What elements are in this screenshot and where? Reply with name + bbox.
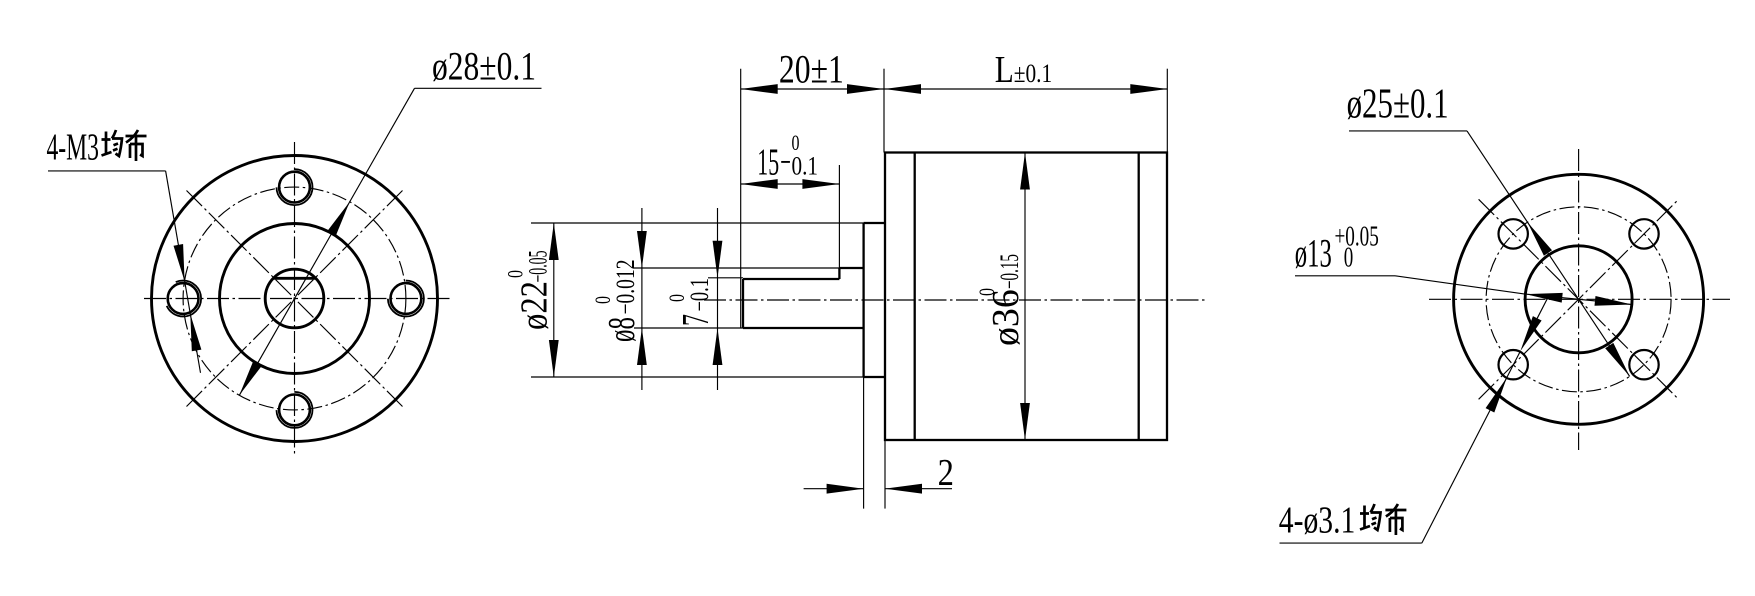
dim 4-phi3.1: arrow upper tail — [1537, 298, 1548, 318]
dim phi8: arrow lower — [637, 328, 647, 365]
dim 4-M3: leader line — [166, 171, 201, 373]
svg-text:7: 7 — [675, 314, 717, 326]
dim 4-phi3.1: dimension line through hole — [1507, 351, 1520, 377]
ext line: boss bottom horizontal — [531, 376, 864, 378]
svg-text:0: 0 — [1344, 243, 1354, 274]
right view: mounting hole bottom-right — [1629, 350, 1658, 379]
svg-text:−0.15: −0.15 — [995, 254, 1024, 289]
dim 7: arrow lower — [713, 328, 723, 365]
dim 4-phi3.1: arrow upper — [1520, 316, 1541, 351]
ext line: boss face lower — [863, 377, 865, 509]
right view: mounting hole top-left — [1499, 219, 1528, 248]
left view: M3 hole top minor circle — [279, 172, 310, 203]
ext line: shaft bottom horizontal — [634, 327, 743, 329]
dim phi8: arrow upper — [637, 231, 647, 268]
svg-text:ø13: ø13 — [1295, 231, 1332, 276]
svg-text:0: 0 — [664, 294, 689, 302]
svg-text:−0.012: −0.012 — [611, 260, 640, 315]
svg-text:0: 0 — [590, 296, 615, 304]
dim phi22: arrow down — [549, 340, 559, 377]
middle view: shaft flat step — [838, 268, 840, 279]
right view: horizontal centerline — [1429, 298, 1730, 300]
dim phi22: dimension line — [553, 223, 555, 377]
right view: bolt circle (dash-dot) — [1486, 207, 1671, 392]
left view: center shaft hole — [265, 269, 324, 328]
right view: diagonal centerline SW-NE — [1479, 199, 1679, 399]
ext line: body face lower — [884, 440, 886, 509]
svg-text:+0.05: +0.05 — [1335, 222, 1379, 253]
middle view: rear end-cap line — [1138, 153, 1140, 441]
left view: flange outer circle — [152, 156, 438, 442]
dim phi25: dimension line — [1467, 131, 1630, 377]
dim L: arrow right — [1130, 84, 1167, 94]
svg-text:4-ø3.1: 4-ø3.1 — [1279, 500, 1356, 542]
dim phi28: leader underline — [415, 87, 542, 89]
dim phi28: dimension line — [239, 88, 414, 395]
svg-text:0.1: 0.1 — [792, 151, 819, 180]
dim 4-M3: label CJK jun — [102, 130, 123, 156]
dim phi28: arrow lower — [239, 361, 262, 396]
dim 15: arrow right — [802, 179, 839, 189]
dim phi13: leader line — [1395, 276, 1525, 294]
middle view: boss left face — [862, 223, 864, 377]
dim 4-phi3.1: leader line — [1422, 377, 1507, 543]
dim phi13: leader underline — [1295, 275, 1395, 277]
left view: M3 hole bottom thread circle — [277, 392, 313, 428]
svg-text:ø28±0.1: ø28±0.1 — [432, 44, 536, 89]
dim 2: dimension line right tail — [885, 488, 952, 490]
dim 15: arrow left — [741, 179, 778, 189]
dim 4-M3: underline — [48, 170, 166, 172]
ext line: body rear face upper — [1166, 69, 1168, 153]
svg-text:ø22: ø22 — [514, 281, 556, 330]
middle view: front end-cap line — [914, 153, 916, 441]
dim 7: arrow upper — [713, 241, 723, 278]
dim phi25: arrow upper — [1528, 222, 1553, 256]
middle view: boss bottom edge — [864, 376, 885, 378]
left view: M3 hole left minor circle — [168, 283, 199, 314]
svg-text:2: 2 — [938, 452, 954, 494]
right view: pilot hole circle — [1525, 246, 1632, 353]
svg-text:−: − — [780, 141, 791, 183]
dim 4-M3: arrow upper — [174, 244, 185, 281]
middle view: shaft tip face — [742, 279, 744, 328]
dim 20: arrow left — [741, 84, 778, 94]
dim 4-M3: arrow lower — [190, 314, 201, 351]
svg-text:ø25±0.1: ø25±0.1 — [1347, 82, 1449, 128]
left view: bolt circle (dash-dot) — [183, 187, 406, 410]
dim phi36: dimension line — [1024, 153, 1026, 441]
left view: shaft D-flat chord — [274, 277, 315, 280]
ext line: boss top horizontal — [531, 222, 864, 224]
dim 2: arrow left outside — [827, 484, 864, 494]
ext line: flat end vertical — [838, 165, 840, 268]
dim 20: arrow right — [847, 84, 884, 94]
middle view: shaft flat top line — [743, 278, 839, 280]
right view: mounting hole top-right — [1629, 219, 1658, 248]
dim phi28: arrow upper — [327, 202, 350, 237]
right view: mounting hole bottom-left — [1499, 350, 1528, 379]
left view: diagonal centerline SW-NE — [187, 191, 403, 407]
dim phi13: dimension line — [1525, 294, 1631, 304]
dim phi13: arrow right — [1595, 296, 1632, 306]
dim phi8: dimension line — [641, 208, 643, 390]
dim phi22: arrow up — [549, 223, 559, 260]
ext line: shaft tip vertical — [740, 69, 742, 328]
left view: vertical centerline — [294, 142, 296, 455]
left view: M3 hole top thread circle — [277, 169, 313, 205]
middle view: boss top edge — [864, 222, 885, 224]
dim 4-phi3.1: label CJK jun — [1360, 504, 1381, 530]
middle view: shaft bottom line — [743, 327, 864, 329]
ext line: flat top horizontal — [708, 277, 743, 279]
dim 4-phi3.1: label CJK bu — [1385, 504, 1406, 535]
dim 20: dimension line — [741, 88, 884, 90]
middle view: motor body outline — [885, 153, 1167, 441]
svg-text:0: 0 — [503, 270, 528, 278]
ext line: shaft top horizontal — [633, 267, 839, 269]
dim 2: arrow right outside — [885, 484, 922, 494]
dim 4-phi3.1: leader underline — [1280, 542, 1422, 544]
svg-text:20±1: 20±1 — [779, 46, 844, 91]
dim phi25: leader underline — [1349, 130, 1467, 132]
middle view: shaft full-dia top line — [839, 267, 863, 269]
left view: M3 hole bottom minor circle — [279, 395, 310, 426]
dim 4-M3: label CJK bu — [126, 130, 147, 161]
dim 7: dimension line — [717, 208, 719, 390]
dim 2: dimension line left tail — [804, 488, 864, 490]
left view: diagonal centerline NW-SE — [187, 191, 403, 407]
dim phi13: arrow left — [1525, 293, 1562, 303]
left view: M3 hole right minor circle — [391, 283, 422, 314]
right view: body outer circle — [1454, 174, 1704, 424]
svg-text:4-M3: 4-M3 — [47, 127, 100, 169]
svg-text:ø36: ø36 — [985, 289, 1027, 346]
svg-text:ø8: ø8 — [601, 317, 643, 342]
dim 15: dimension line — [741, 183, 840, 185]
dim 4-phi3.1: arrow lower — [1486, 377, 1507, 412]
dim L: arrow left — [884, 84, 921, 94]
svg-text:0: 0 — [974, 288, 999, 296]
right view: vertical centerline — [1578, 149, 1580, 450]
left view: horizontal centerline — [144, 298, 452, 300]
dim phi36: arrow up — [1020, 153, 1030, 190]
svg-text:−0.05: −0.05 — [524, 251, 553, 283]
left view: M3 hole right thread circle — [388, 281, 424, 317]
middle view: centerline — [704, 299, 1207, 301]
right view: diagonal centerline NW-SE — [1479, 199, 1679, 399]
dim phi36: arrow down — [1020, 403, 1030, 440]
svg-text:15: 15 — [757, 141, 779, 183]
left view: pilot boss circle — [220, 224, 370, 374]
dim L: dimension line — [884, 88, 1167, 90]
left view: M3 hole left thread circle — [165, 281, 201, 317]
svg-text:−0.1: −0.1 — [685, 278, 714, 312]
ext line: body front face upper — [883, 69, 885, 153]
dim phi25: arrow lower — [1605, 343, 1630, 377]
